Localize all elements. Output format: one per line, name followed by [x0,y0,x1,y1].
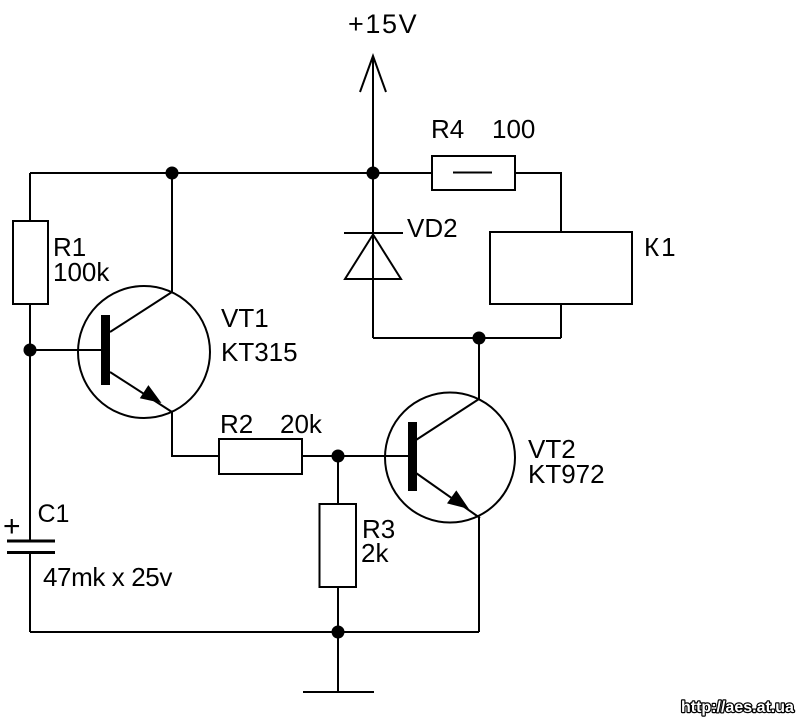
wire VT2 collector vertical [478,338,480,400]
wire left vertical middle (R1 bottom to C1) [29,304,31,540]
wire left vertical lower (C1 to bottom rail) [29,554,31,633]
wire +15V stem [372,56,374,173]
node +15V junction [367,167,380,180]
svg-text:20k: 20k [280,409,323,439]
wire VT1 base [30,349,101,351]
wire K1 bottom [560,304,562,338]
diode VD2 [344,213,458,279]
svg-text:100: 100 [492,114,535,144]
wire VD2 vertical [372,173,374,338]
svg-text:100k: 100k [53,257,110,287]
svg-text:http://aes.at.ua: http://aes.at.ua [681,699,794,716]
node top-left junction [166,167,179,180]
wire R2 right to VT2 base [302,455,408,457]
svg-text:R4: R4 [431,114,464,144]
wire R4 right to K1 top [515,173,561,232]
svg-text:+: + [3,510,21,543]
relay K1 [490,232,678,304]
wire bottom rail [30,631,479,633]
resistor R4 [431,114,535,190]
transistor VT2 [385,393,605,523]
resistor R1 [13,221,110,304]
wire R3 top [337,456,339,504]
capacitor C1 [3,500,172,592]
wire VT2 emitter vertical [478,518,480,632]
svg-text:2k: 2k [361,538,389,568]
svg-text:KT972: KT972 [528,459,605,489]
ground [337,632,339,692]
wire mid horizontal (VD2 to K1 bottom) [373,337,561,339]
node VD2/K1/collector junction [473,332,486,345]
transistor VT1 [78,286,298,418]
svg-text:VD2: VD2 [407,213,458,243]
svg-text:К1: К1 [644,232,678,262]
svg-text:47mk x 25v: 47mk x 25v [43,562,172,592]
node R2/R3/base junction [332,450,345,463]
svg-text:+15V: +15V [348,9,418,39]
wire VT1 emitter to R2 [172,412,219,456]
wire top rail [30,172,432,174]
node bottom/ground junction [332,626,345,639]
resistor R3 [320,504,396,587]
wire left vertical upper (R1 top feed) [29,173,31,221]
node R1/C1/base junction [24,344,37,357]
svg-text:KT315: KT315 [221,337,298,367]
svg-text:R2: R2 [220,409,253,439]
svg-text:VT1: VT1 [221,303,269,333]
wire R3 bottom [337,587,339,632]
svg-text:C1: C1 [38,500,70,528]
power +15V arrow [360,56,386,92]
resistor R2 [219,409,323,474]
wire VT1 collector vertical [171,173,173,292]
